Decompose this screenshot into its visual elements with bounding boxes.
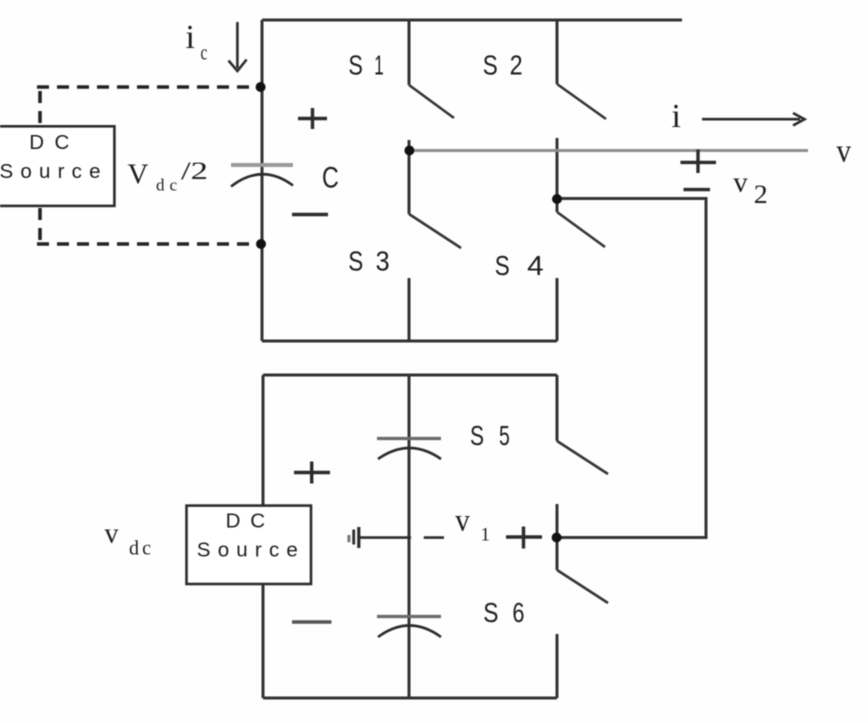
svg-text:/2: /2	[181, 158, 208, 185]
svg-text:S: S	[495, 250, 510, 281]
svg-text:S o u r c e: S o u r c e	[0, 160, 101, 183]
svg-text:v: v	[105, 519, 119, 550]
svg-text:2: 2	[754, 180, 768, 209]
svg-text:V: V	[128, 159, 149, 191]
svg-text:v: v	[837, 134, 852, 170]
svg-text:D C: D C	[29, 131, 69, 154]
svg-text:S: S	[483, 50, 498, 81]
svg-text:i: i	[672, 98, 681, 135]
svg-text:S: S	[348, 245, 363, 276]
svg-text:v: v	[733, 166, 748, 198]
svg-text:6: 6	[512, 597, 524, 628]
svg-text:D C: D C	[226, 510, 266, 533]
svg-text:v: v	[455, 502, 470, 538]
svg-text:S o u r c e: S o u r c e	[197, 538, 298, 561]
svg-text:S: S	[483, 597, 498, 628]
svg-text:5: 5	[499, 420, 510, 451]
svg-text:4: 4	[527, 250, 544, 281]
svg-text:dc: dc	[129, 538, 151, 560]
svg-text:C: C	[322, 161, 339, 194]
svg-text:S: S	[470, 420, 484, 451]
svg-text:S: S	[348, 50, 363, 81]
svg-text:1: 1	[481, 525, 491, 546]
svg-text:dc: dc	[156, 176, 177, 195]
svg-text:2: 2	[510, 50, 523, 81]
svg-text:3: 3	[376, 245, 390, 276]
svg-text:c: c	[201, 40, 208, 65]
svg-text:i: i	[186, 19, 195, 56]
svg-text:1: 1	[374, 50, 383, 81]
